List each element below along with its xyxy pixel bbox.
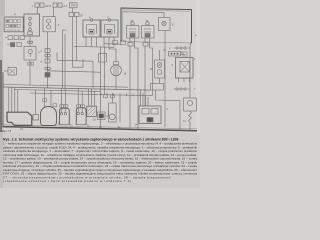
ignition coil box B: [101, 16, 118, 38]
ignition switch column (tall box): [24, 7, 40, 85]
connector 30 small: [69, 13, 83, 18]
wire: connector 30 down with U-staple: [73, 17, 84, 68]
distributor (bottom left blob): [7, 87, 39, 131]
wire: injector 1 drop: [129, 38, 131, 129]
crank sensor connector row (right top): [169, 47, 191, 51]
ignition coil box A: [83, 16, 100, 38]
ECU big box: [121, 8, 192, 43]
wire: coil A pin drops: [86, 37, 97, 47]
relay box below switch: [24, 47, 41, 66]
connector tags under injectors: [128, 43, 151, 47]
connector cluster 3 (top): [50, 3, 66, 8]
3-dot connector box: [163, 49, 187, 58]
connector cluster 4 (top): [66, 3, 78, 8]
wire: injector 2 second drop: [150, 38, 153, 96]
wire: injector 1 second drop: [135, 38, 139, 129]
small sensor box left: [4, 68, 17, 76]
wire: horizontal bus right: [30, 93, 152, 96]
wire: horizontal bus 3: [14, 90, 100, 92]
ignition module 7 (right): [172, 58, 194, 83]
caption band background: [0, 133, 200, 188]
wire: vertical pair right: [64, 34, 66, 91]
wire: mid horizontal long: [48, 71, 101, 72]
relay box 14 (bottom): [135, 90, 169, 128]
wire: bottom ground bus: [3, 127, 198, 131]
wire: stub above mid horizontal: [56, 53, 58, 61]
wire: connector 30 second drop: [76, 17, 78, 61]
wire: ECU right edge down: [190, 42, 192, 46]
wire: sensor 8 drop upper: [164, 31, 166, 48]
fuel pump M (mid right): [150, 50, 165, 83]
lambda sensor group: [99, 50, 127, 90]
wire: pair top jog: [63, 29, 67, 31]
diagnostic chain under relay C: [40, 32, 50, 88]
wire: coil collector horizontal: [78, 44, 121, 48]
idle actuator 11: [103, 93, 120, 129]
connector cluster 1 (top): [32, 3, 51, 8]
resistor pack 26: [87, 89, 97, 122]
wire: vertical pair left: [62, 30, 64, 88]
left scan shadow: [0, 0, 3, 188]
tag boxes at ECU bottom-left: [113, 41, 126, 45]
relay C (box with two circles): [43, 7, 60, 32]
coil unit 23 (bottle): [76, 89, 90, 128]
fuse pair row 2: [8, 43, 22, 47]
connector row right lower: [174, 46, 197, 98]
throttle sensor 8 (inside ECU box top): [123, 12, 174, 31]
rpm sensor right bottom: [183, 98, 197, 131]
wire: left vertical bus: [2, 72, 4, 126]
small relay 10 bottom: [98, 110, 109, 129]
wire: main horizontal bus 1: [3, 85, 128, 88]
wire: connector 4 to connector 30: [72, 8, 74, 13]
injector 2: [142, 20, 155, 38]
bus junction ticks: [101, 93, 140, 97]
coil unit 21 (bottle): [60, 88, 74, 127]
ignition distributor cap (bell): [41, 88, 61, 126]
wire: mid horizontal with right drop: [57, 60, 93, 88]
box under pump: [151, 84, 181, 130]
wire: ground bus echo line: [3, 125, 198, 129]
wire: center vertical to bus: [104, 47, 106, 96]
paper background: [0, 0, 200, 188]
wire: collector stub left: [74, 45, 78, 47]
fuse box F (grid box top-left): [4, 13, 23, 32]
wire: feed to lambda probe: [109, 47, 116, 50]
wire: sensor 8 drop lower: [164, 48, 166, 90]
wire: main horizontal bus 2: [3, 87, 150, 90]
inline connector tags: [43, 99, 84, 108]
fuse pair row 1: [5, 36, 24, 40]
caption body: [3, 142, 198, 184]
wire: coil B pin drops: [104, 37, 114, 47]
wire: center vertical long: [100, 47, 102, 129]
injector 1: [127, 20, 140, 38]
wire: injector 2 drop: [144, 38, 146, 106]
